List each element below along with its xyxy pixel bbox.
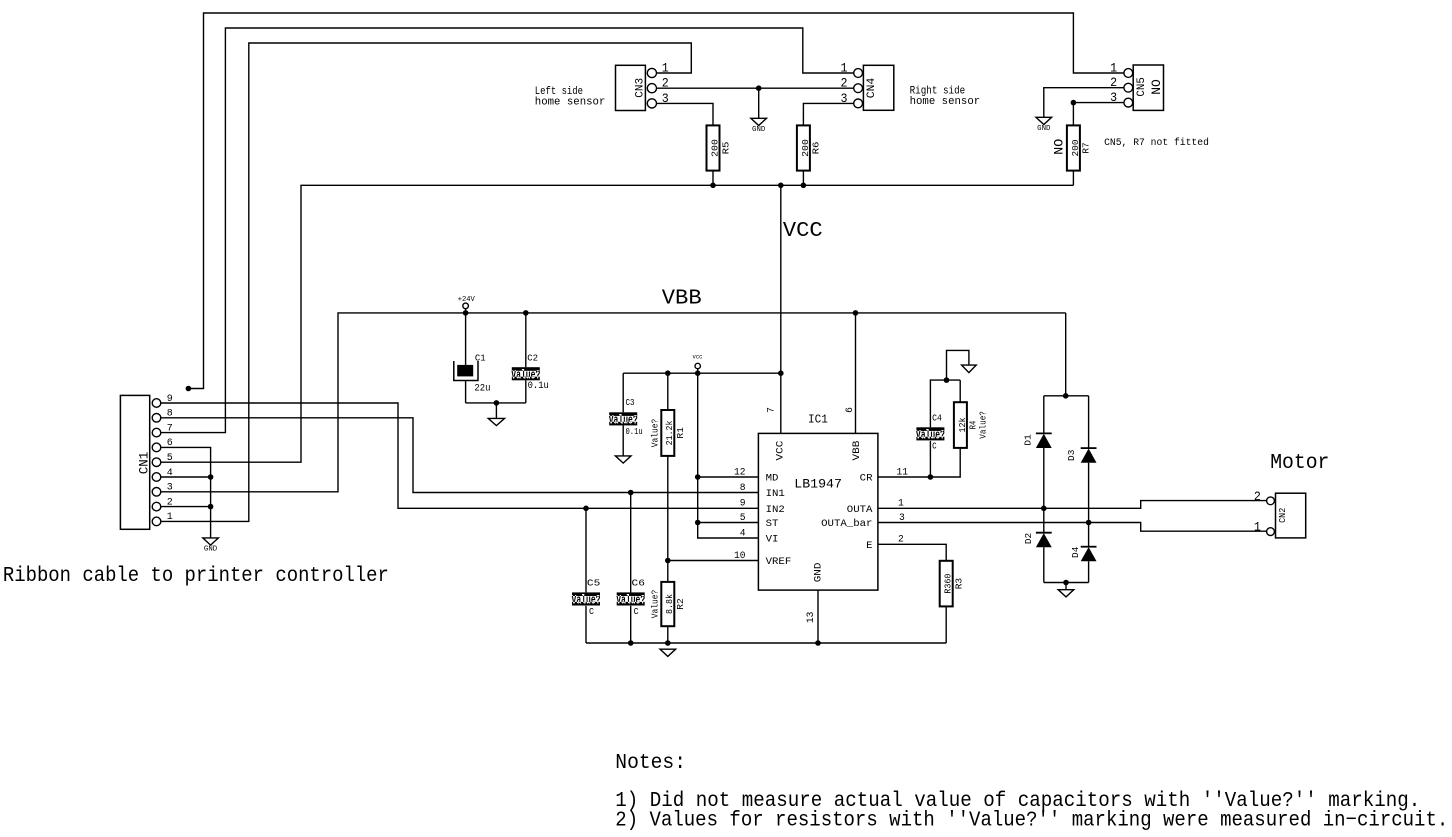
svg-text:Notes:: Notes: <box>615 751 686 775</box>
svg-text:R1: R1 <box>675 427 686 439</box>
svg-text:2: 2 <box>1254 489 1261 504</box>
svg-text:VBB: VBB <box>662 286 702 310</box>
svg-text:VI: VI <box>766 534 779 546</box>
svg-text:Ribbon cable to printer contro: Ribbon cable to printer controller <box>3 564 389 588</box>
svg-text:GND: GND <box>204 546 217 554</box>
svg-text:12: 12 <box>734 467 746 478</box>
svg-text:7: 7 <box>167 423 173 434</box>
svg-text:VBB: VBB <box>851 441 863 461</box>
svg-text:10: 10 <box>734 551 746 562</box>
svg-text:1: 1 <box>1254 520 1261 535</box>
svg-text:Motor: Motor <box>1270 451 1329 475</box>
svg-text:Value?: Value? <box>649 419 660 448</box>
svg-text:Value?: Value? <box>977 411 988 439</box>
svg-text:1: 1 <box>1110 60 1117 75</box>
svg-text:+24V: +24V <box>458 296 476 304</box>
svg-text:D3: D3 <box>1066 449 1077 461</box>
svg-text:IC1: IC1 <box>808 412 828 426</box>
svg-text:CN2: CN2 <box>1278 508 1288 523</box>
svg-text:1: 1 <box>167 512 173 523</box>
svg-text:CN5: CN5 <box>1136 77 1148 96</box>
svg-text:Value?: Value? <box>649 590 660 619</box>
svg-text:12k: 12k <box>957 417 968 432</box>
svg-text:R7: R7 <box>1081 142 1092 153</box>
svg-text:8.8k: 8.8k <box>664 594 675 614</box>
svg-text:NO: NO <box>1150 79 1164 95</box>
svg-text:GND: GND <box>1037 125 1050 133</box>
svg-text:NO: NO <box>1053 139 1067 155</box>
svg-text:5: 5 <box>740 513 746 524</box>
svg-text:0.1u: 0.1u <box>528 381 549 392</box>
svg-text:GND: GND <box>813 563 825 583</box>
svg-text:C: C <box>589 606 594 617</box>
svg-text:C: C <box>634 606 639 617</box>
svg-text:D2: D2 <box>1023 533 1034 545</box>
svg-text:VCC: VCC <box>775 441 787 461</box>
svg-text:VCC: VCC <box>783 219 823 243</box>
svg-text:D4: D4 <box>1070 546 1081 558</box>
svg-text:7: 7 <box>766 407 777 413</box>
svg-text:8: 8 <box>740 483 746 494</box>
svg-text:C6: C6 <box>632 578 646 589</box>
svg-text:200: 200 <box>800 139 811 157</box>
svg-text:MD: MD <box>766 473 779 485</box>
svg-text:CN1: CN1 <box>137 452 152 474</box>
svg-text:VREF: VREF <box>766 556 792 568</box>
svg-text:vcc: vcc <box>693 354 703 361</box>
svg-text:9: 9 <box>740 499 746 510</box>
svg-text:R2: R2 <box>675 598 686 610</box>
svg-text:R3: R3 <box>954 578 965 590</box>
svg-text:200: 200 <box>709 139 720 157</box>
svg-text:GND: GND <box>752 126 765 134</box>
svg-text:CN3: CN3 <box>634 78 646 98</box>
svg-text:home sensor: home sensor <box>910 96 981 108</box>
svg-text:C1: C1 <box>475 352 486 363</box>
svg-text:2) Values for resistors with ': 2) Values for resistors with ''Value?'' … <box>615 809 1448 833</box>
svg-text:6: 6 <box>845 407 856 413</box>
svg-text:0.1u: 0.1u <box>626 426 643 437</box>
svg-text:R5: R5 <box>720 141 731 154</box>
svg-text:1: 1 <box>841 60 848 75</box>
svg-text:2: 2 <box>841 76 848 91</box>
svg-text:3: 3 <box>167 483 173 494</box>
svg-text:22u: 22u <box>474 383 490 394</box>
svg-text:IN1: IN1 <box>766 488 785 500</box>
svg-text:C2: C2 <box>527 352 538 363</box>
svg-text:CN5, R7 not fitted: CN5, R7 not fitted <box>1104 137 1209 149</box>
svg-text:200: 200 <box>1070 139 1081 156</box>
svg-text:13: 13 <box>806 612 817 624</box>
svg-text:CN4: CN4 <box>866 77 878 98</box>
svg-text:E: E <box>866 540 872 552</box>
svg-text:R360: R360 <box>943 573 954 593</box>
svg-text:IN2: IN2 <box>766 504 785 516</box>
svg-text:4: 4 <box>740 528 746 539</box>
svg-text:C: C <box>932 440 937 451</box>
svg-text:OUTA: OUTA <box>847 504 873 516</box>
svg-text:1: 1 <box>662 60 669 75</box>
svg-text:C4: C4 <box>932 412 942 423</box>
svg-text:D1: D1 <box>1023 434 1034 446</box>
svg-text:C3: C3 <box>626 397 635 408</box>
svg-text:OUTA_bar: OUTA_bar <box>821 518 872 530</box>
svg-text:C5: C5 <box>587 578 601 589</box>
svg-text:LB1947: LB1947 <box>794 478 842 492</box>
svg-text:5: 5 <box>167 453 173 464</box>
svg-text:ST: ST <box>766 518 779 530</box>
svg-text:home sensor: home sensor <box>535 97 606 109</box>
svg-text:R6: R6 <box>811 141 822 154</box>
svg-text:21.2k: 21.2k <box>664 420 675 445</box>
svg-text:CR: CR <box>860 473 874 485</box>
